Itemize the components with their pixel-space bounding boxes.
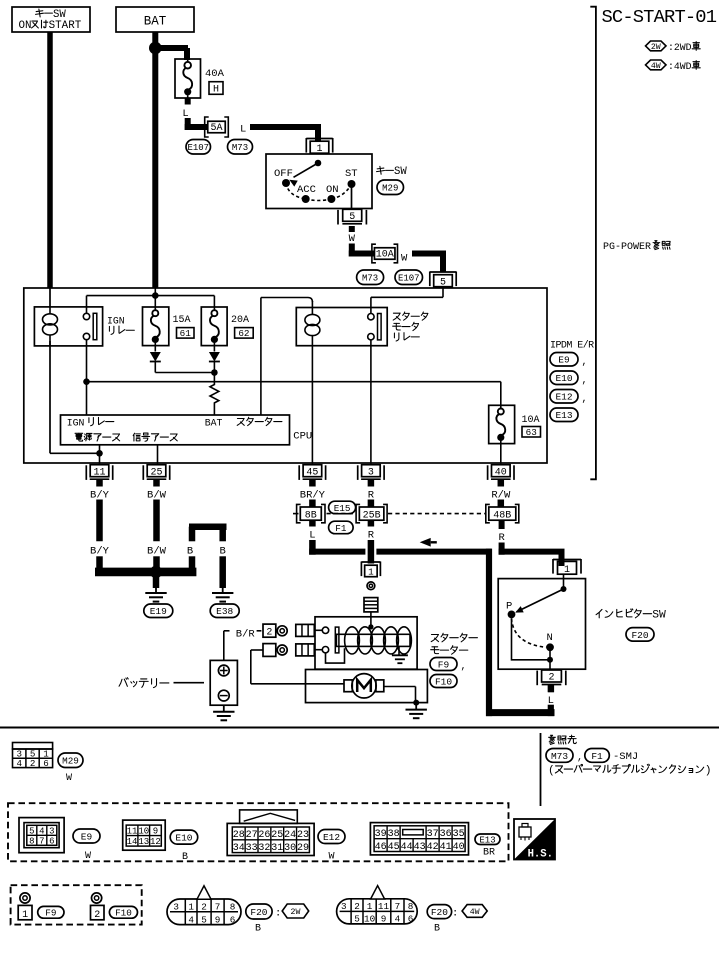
svg-text:8B: 8B [305, 511, 317, 522]
svg-text:E13: E13 [479, 835, 495, 845]
svg-text:27: 27 [246, 830, 258, 841]
svg-text:W: W [85, 851, 91, 862]
svg-text:46: 46 [375, 842, 387, 853]
svg-text:8: 8 [230, 902, 236, 913]
svg-text:IPDM E/R: IPDM E/R [550, 340, 594, 352]
svg-text:5: 5 [29, 827, 34, 837]
svg-text:40A: 40A [205, 68, 225, 80]
svg-text:E12: E12 [555, 392, 572, 403]
svg-text:ST: ST [345, 168, 358, 180]
svg-text:10A: 10A [522, 415, 540, 426]
svg-text:F10: F10 [115, 908, 132, 919]
svg-text:8: 8 [408, 901, 414, 912]
svg-text:,: , [582, 357, 588, 368]
svg-text:6: 6 [49, 837, 54, 847]
svg-text:48B: 48B [493, 511, 511, 522]
svg-text:M73: M73 [362, 273, 378, 283]
svg-text:F1: F1 [591, 751, 603, 762]
svg-text:W: W [66, 773, 72, 784]
svg-text:E9: E9 [81, 831, 93, 842]
svg-text:38: 38 [388, 829, 400, 840]
svg-text:30: 30 [284, 843, 296, 854]
svg-text:7: 7 [39, 837, 44, 847]
svg-text:B/R: B/R [236, 629, 256, 641]
svg-text:E9: E9 [558, 355, 570, 366]
svg-text:26: 26 [258, 830, 270, 841]
svg-text:START: START [49, 20, 82, 32]
svg-text:35: 35 [453, 829, 465, 840]
svg-text:,: , [582, 376, 588, 387]
svg-text:37: 37 [427, 829, 439, 840]
svg-text:41: 41 [440, 842, 452, 853]
svg-text:N: N [547, 632, 553, 644]
svg-text:24: 24 [284, 830, 296, 841]
svg-text:40: 40 [495, 467, 507, 478]
svg-text:1: 1 [188, 902, 194, 913]
svg-text:5: 5 [201, 914, 207, 925]
svg-text:3: 3 [368, 467, 374, 478]
svg-text:3: 3 [173, 902, 179, 913]
svg-text:13: 13 [138, 837, 149, 847]
svg-text:36: 36 [440, 829, 452, 840]
svg-text:ON: ON [19, 20, 32, 32]
svg-text:9: 9 [381, 914, 387, 925]
svg-text:BAT: BAT [144, 15, 167, 29]
svg-text:E12: E12 [323, 832, 340, 843]
svg-text:11: 11 [127, 827, 138, 837]
svg-text:31: 31 [271, 843, 283, 854]
svg-text:4W: 4W [470, 908, 480, 917]
svg-text:29: 29 [297, 843, 309, 854]
svg-text:28: 28 [233, 830, 245, 841]
svg-text:44: 44 [401, 842, 413, 853]
svg-text:62: 62 [238, 328, 249, 339]
svg-text:IGN: IGN [67, 418, 85, 429]
svg-text:9: 9 [215, 914, 221, 925]
svg-text:1: 1 [368, 567, 374, 578]
svg-text:11: 11 [378, 901, 390, 912]
svg-text:6: 6 [230, 914, 236, 925]
svg-text:W: W [328, 852, 334, 863]
svg-text::4WD: :4WD [668, 61, 692, 72]
svg-text:6: 6 [43, 758, 49, 769]
svg-text:12: 12 [150, 837, 161, 847]
svg-text:42: 42 [427, 842, 439, 853]
svg-text:BAT: BAT [205, 418, 223, 429]
svg-text:63: 63 [526, 427, 537, 438]
svg-text:5: 5 [354, 914, 360, 925]
svg-text:34: 34 [233, 843, 245, 854]
svg-text:B: B [220, 545, 226, 557]
svg-text:E107: E107 [187, 143, 209, 153]
svg-text:CPU: CPU [293, 431, 312, 443]
svg-text:2W: 2W [291, 908, 301, 917]
svg-text:M29: M29 [62, 756, 79, 767]
svg-text:40: 40 [453, 842, 465, 853]
svg-text:B: B [182, 852, 188, 863]
svg-text:OFF: OFF [274, 168, 293, 180]
svg-text:F9: F9 [438, 659, 450, 670]
svg-text:): ) [705, 765, 712, 777]
svg-text:4: 4 [39, 827, 44, 837]
svg-text:SW: SW [394, 166, 407, 178]
svg-text:F20: F20 [631, 630, 648, 641]
svg-text:20A: 20A [231, 315, 249, 326]
svg-text:B: B [434, 924, 440, 935]
svg-text:ACC: ACC [297, 184, 316, 196]
svg-text:4: 4 [16, 758, 22, 769]
svg-text:L: L [240, 124, 246, 136]
svg-text::2WD: :2WD [668, 42, 692, 53]
svg-text:F20: F20 [250, 907, 267, 918]
svg-text:E38: E38 [216, 606, 233, 617]
svg-text:E15: E15 [334, 503, 351, 514]
svg-text:2: 2 [266, 628, 272, 639]
svg-text:10A: 10A [376, 250, 394, 261]
svg-text:11: 11 [93, 467, 105, 478]
svg-text:2: 2 [30, 758, 36, 769]
svg-text:32: 32 [258, 843, 270, 854]
svg-text:E107: E107 [398, 273, 420, 283]
svg-text:SW: SW [652, 610, 666, 622]
svg-text:1: 1 [22, 910, 28, 921]
svg-text:E10: E10 [175, 833, 192, 844]
svg-text:,: , [577, 753, 583, 764]
svg-text::: : [452, 908, 458, 920]
svg-text:43: 43 [414, 842, 426, 853]
svg-text:2: 2 [94, 910, 100, 921]
svg-text:3: 3 [49, 827, 54, 837]
svg-text:10: 10 [364, 914, 375, 925]
svg-text:H: H [213, 85, 219, 96]
svg-text:F9: F9 [45, 908, 56, 919]
svg-text:F10: F10 [435, 676, 452, 687]
svg-text:H.S.: H.S. [528, 849, 553, 861]
svg-text:R: R [498, 532, 505, 544]
svg-text::: : [275, 908, 281, 920]
svg-text:9: 9 [153, 827, 158, 837]
svg-text:6: 6 [408, 914, 414, 925]
svg-text:5: 5 [440, 278, 446, 289]
svg-text:M73: M73 [232, 143, 248, 153]
svg-text:R: R [368, 530, 375, 542]
svg-text:M73: M73 [551, 751, 568, 762]
svg-text:5A: 5A [210, 123, 222, 134]
svg-text:B: B [255, 924, 261, 935]
svg-text:33: 33 [246, 843, 258, 854]
svg-text:10: 10 [138, 827, 149, 837]
svg-text:2W: 2W [651, 43, 661, 52]
svg-text:PG-POWER: PG-POWER [603, 242, 651, 253]
svg-text:-SMJ: -SMJ [613, 751, 638, 763]
svg-text:25: 25 [271, 830, 283, 841]
svg-text:25B: 25B [363, 511, 381, 522]
svg-text:4W: 4W [651, 62, 661, 71]
svg-text:,: , [461, 662, 467, 673]
svg-text:ON: ON [326, 184, 339, 196]
svg-text:IGN: IGN [107, 316, 125, 327]
svg-text:W: W [349, 233, 356, 245]
svg-text:23: 23 [297, 830, 309, 841]
svg-text:45: 45 [306, 467, 318, 478]
svg-text:W: W [401, 253, 408, 265]
svg-text:14: 14 [127, 837, 138, 847]
svg-text:2: 2 [201, 902, 207, 913]
svg-text:F20: F20 [431, 907, 448, 918]
svg-text:39: 39 [375, 829, 387, 840]
svg-text:25: 25 [150, 467, 162, 478]
svg-text:15A: 15A [173, 315, 191, 326]
svg-text:BR: BR [483, 848, 495, 859]
svg-text:4: 4 [395, 914, 401, 925]
svg-text:F1: F1 [335, 523, 347, 534]
svg-text:L: L [548, 695, 554, 707]
svg-text:L: L [309, 530, 315, 542]
svg-text:E13: E13 [555, 410, 572, 421]
svg-text:8: 8 [29, 837, 34, 847]
svg-text:SC-START-01: SC-START-01 [602, 6, 717, 28]
svg-text:2: 2 [354, 901, 360, 912]
svg-text:1: 1 [564, 565, 570, 576]
svg-text:M29: M29 [382, 183, 398, 193]
svg-text:E19: E19 [150, 606, 167, 617]
svg-text:61: 61 [180, 328, 192, 339]
svg-text:3: 3 [341, 901, 347, 912]
svg-text:7: 7 [215, 902, 221, 913]
svg-text:5: 5 [349, 212, 355, 223]
svg-text:4: 4 [188, 914, 194, 925]
svg-text:45: 45 [388, 842, 400, 853]
svg-text:(: ( [548, 765, 555, 777]
svg-text:2: 2 [548, 673, 554, 684]
svg-text:1: 1 [367, 901, 373, 912]
svg-text:B: B [187, 545, 193, 557]
svg-text:7: 7 [395, 901, 401, 912]
svg-text:B/Y: B/Y [90, 545, 110, 557]
svg-text:,: , [582, 394, 588, 405]
svg-text:B/W: B/W [147, 545, 167, 557]
svg-text:E10: E10 [555, 373, 572, 384]
